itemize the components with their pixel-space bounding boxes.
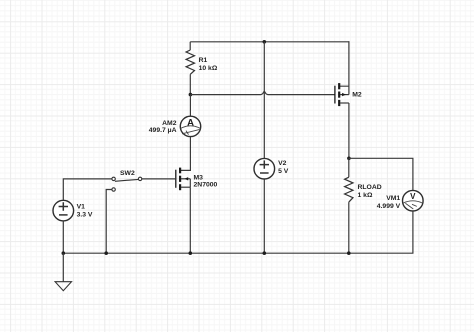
wire ammeter bottom to M3 drain	[181, 137, 190, 171]
svg-text:SW2: SW2	[120, 170, 135, 177]
resistor RLOAD	[345, 177, 353, 202]
wire gate node down to ammeter AM2	[189, 95, 191, 117]
ground symbol	[55, 282, 71, 291]
node junction dot load node	[347, 157, 351, 161]
wire switch lower throw to ground rail	[106, 190, 112, 254]
transistor M3 (NMOS 2N7000)	[176, 168, 191, 191]
wire V2 bottom to ground rail	[263, 179, 265, 253]
resistor R1	[186, 50, 194, 74]
wire R1 bottom to gate-node	[189, 74, 191, 94]
wire VM1 bottom down to ground rail corner	[412, 211, 414, 253]
node junction dot rail at V1	[62, 251, 66, 255]
svg-text:V1: V1	[77, 204, 86, 211]
node junction dot rail at switch drop	[104, 251, 108, 255]
wire gate net to M2 gate with hop over V2 wire	[190, 91, 335, 94]
node junction dot rail at M3 source	[189, 251, 193, 255]
wire RLOAD bottom to ground rail	[348, 202, 350, 253]
svg-text:M3: M3	[194, 174, 204, 181]
voltmeter VM1	[403, 190, 424, 211]
node junction dot top rail / V2 top	[263, 40, 267, 44]
voltage source V1 3.3V	[53, 200, 74, 221]
node junction dot rail at RLOAD	[347, 251, 351, 255]
wire M3 source down to ground rail	[189, 187, 191, 253]
wire R1 top stem	[189, 42, 191, 50]
svg-text:4.999 V: 4.999 V	[377, 203, 401, 210]
svg-text:1 kΩ: 1 kΩ	[358, 192, 373, 199]
svg-text:M2: M2	[352, 92, 362, 99]
ammeter AM2	[180, 116, 200, 136]
svg-text:V2: V2	[278, 160, 287, 167]
svg-text:3.3 V: 3.3 V	[77, 212, 93, 219]
wire M2 source from top rail down	[339, 41, 349, 86]
voltage source V2 5V	[254, 158, 275, 179]
wire load node to RLOAD top	[348, 158, 350, 177]
svg-text:2N7000: 2N7000	[194, 182, 218, 189]
wire V1 minus down to ground rail	[62, 221, 64, 253]
svg-text:A: A	[187, 118, 194, 129]
wire V1 plus up and right to switch throw	[63, 179, 112, 200]
node junction dot rail at V2	[263, 251, 267, 255]
wire ground stem	[62, 253, 64, 282]
svg-text:AM2: AM2	[162, 120, 177, 127]
svg-text:5 V: 5 V	[278, 168, 289, 175]
svg-text:R1: R1	[199, 57, 208, 64]
wire ground rail	[63, 252, 413, 254]
svg-text:10 kΩ: 10 kΩ	[199, 65, 218, 72]
transistor M2 (PMOS)	[335, 83, 349, 106]
wire top rail from R1 top to M2 drain branch	[190, 41, 349, 43]
switch SW2 (SPDT)	[112, 177, 142, 191]
svg-text:499.7 µA: 499.7 µA	[149, 127, 177, 134]
wire load node right to VM1 top	[349, 158, 413, 190]
svg-text:V: V	[410, 192, 416, 201]
node junction dot R1 bottom / M2 gate net	[189, 93, 193, 97]
svg-text:VM1: VM1	[386, 195, 400, 202]
svg-text:RLOAD: RLOAD	[358, 184, 382, 191]
wire V2 top from rail down	[263, 42, 265, 159]
wire switch common to M3 gate	[142, 178, 176, 180]
wire M2 drain down to load node	[348, 103, 350, 158]
